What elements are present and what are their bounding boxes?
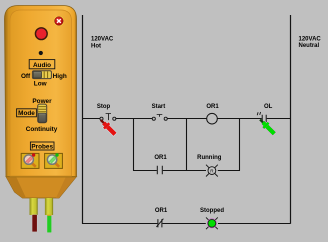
wire rung 2 <box>133 170 240 172</box>
svg-text:Running: Running <box>197 155 222 161</box>
lamp Stopped (lit green) <box>200 208 224 229</box>
red probe wire <box>32 215 37 232</box>
svg-text:Continuity: Continuity <box>26 126 58 133</box>
svg-text:High: High <box>53 73 67 80</box>
green probe (on OL contact) <box>257 117 277 137</box>
probe stem left <box>30 198 38 215</box>
contact OR1 seal-in (NO) <box>154 155 167 174</box>
right rail 120VAC Neutral <box>290 15 292 224</box>
svg-text:OR1: OR1 <box>206 104 219 110</box>
green probe button <box>45 153 63 168</box>
wire branch node1 down <box>133 119 135 171</box>
label Continuity <box>26 126 58 133</box>
overload contact OL <box>257 104 272 123</box>
contact OR1 (NC) <box>155 208 168 228</box>
coil OR1 <box>206 104 219 124</box>
svg-text:OR1: OR1 <box>154 155 167 161</box>
tester device inner panel <box>10 10 72 176</box>
wire branch node2 down <box>186 119 188 171</box>
svg-text:Audio: Audio <box>33 62 51 69</box>
speaker dot <box>39 51 43 55</box>
left rail 120VAC Hot <box>82 15 84 224</box>
close button (red X) <box>54 16 64 26</box>
green probe wire <box>47 215 51 233</box>
pushbutton Stop (NC) <box>97 104 116 120</box>
svg-text:OR1: OR1 <box>155 208 168 214</box>
label 120VAC Neutral <box>299 36 322 49</box>
svg-text:120VAC: 120VAC <box>91 36 114 42</box>
svg-text:Neutral: Neutral <box>299 43 320 49</box>
LED indicator <box>35 28 47 40</box>
wire branch node3 down <box>239 119 241 171</box>
label High <box>53 73 67 80</box>
Probes label box <box>30 142 54 150</box>
tester device bottom taper <box>6 177 77 199</box>
Audio label box <box>29 60 55 69</box>
pushbutton Start (NO) <box>152 104 168 120</box>
tester device body <box>5 6 77 177</box>
label 120VAC Hot <box>91 36 114 49</box>
svg-text:Stop: Stop <box>97 104 111 110</box>
Power slide switch (vertical) <box>38 104 47 123</box>
probe stem right <box>45 198 53 215</box>
svg-text:Off: Off <box>21 73 31 80</box>
Audio slide switch <box>32 71 51 79</box>
svg-text:Probes: Probes <box>31 143 53 150</box>
svg-text:Hot: Hot <box>91 43 101 49</box>
svg-text:120VAC: 120VAC <box>299 36 322 42</box>
label Off <box>21 73 31 80</box>
red probe button <box>21 153 39 168</box>
svg-text:Low: Low <box>34 81 47 88</box>
wire rung 1 <box>82 118 291 120</box>
svg-text:Stopped: Stopped <box>200 208 224 214</box>
label Low <box>34 81 47 88</box>
wire rung 3 <box>82 223 291 225</box>
svg-text:Mode: Mode <box>18 110 35 117</box>
red probe (on Stop contact) <box>98 117 118 137</box>
svg-text:OL: OL <box>264 104 273 110</box>
Mode label box <box>17 109 37 117</box>
lamp Running (unlit, R) <box>197 155 222 177</box>
svg-text:Start: Start <box>152 104 166 110</box>
label Power <box>32 98 52 105</box>
